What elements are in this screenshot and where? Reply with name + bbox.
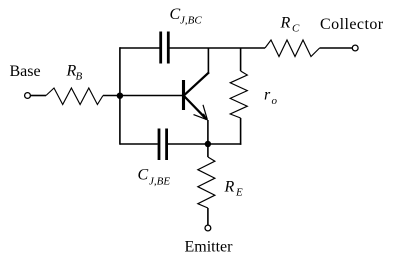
node emitter junction dot [205, 141, 211, 147]
svg-text:J,BE: J,BE [149, 176, 170, 188]
wire bottom rail left (base rail to CJBE) [120, 143, 158, 145]
transistor Q1 base bar [182, 80, 185, 110]
resistor RC [265, 40, 320, 57]
svg-text:J,BC: J,BC [180, 15, 202, 27]
wire base vertical rail [119, 47, 121, 145]
svg-text:C: C [170, 6, 181, 23]
label ro [264, 87, 278, 108]
resistor RE [198, 157, 215, 208]
svg-text:C: C [138, 167, 149, 184]
label RC [280, 15, 301, 35]
svg-text:B: B [76, 71, 83, 83]
wire CJBE to emitter node [168, 143, 208, 145]
label CJBE [138, 167, 171, 188]
svg-text:R: R [280, 15, 291, 32]
wire ro bottom drop [240, 118, 242, 145]
wire top rail right (CJBC to RC) [170, 47, 266, 49]
svg-text:Collector: Collector [320, 16, 384, 33]
wire ro top drop [240, 48, 242, 71]
wire base terminal to RB [30, 95, 46, 97]
label Emitter [185, 239, 234, 256]
capacitor CJBE [159, 129, 167, 161]
wire RC to collector terminal [320, 47, 353, 49]
transistor Q1 collector stroke [184, 72, 209, 95]
svg-text:R: R [224, 179, 235, 196]
label RB [66, 63, 83, 83]
label RE [224, 179, 244, 199]
label CJBC [170, 6, 203, 27]
resistor ro [230, 71, 247, 118]
capacitor CJBC [161, 32, 169, 64]
wire collector drop (top rail to transistor) [207, 48, 209, 73]
terminal Collector (open circle) [352, 45, 358, 51]
svg-text:C: C [292, 23, 300, 35]
wire RB to base node [103, 95, 183, 97]
transistor Q1 emitter stroke with arrow [184, 96, 208, 121]
label Collector [320, 16, 384, 33]
svg-text:Emitter: Emitter [185, 239, 234, 256]
label Base [10, 63, 41, 80]
svg-text:E: E [235, 187, 243, 199]
terminal Base (open circle) [25, 93, 31, 99]
terminal Emitter (open circle) [205, 225, 211, 231]
svg-text:Base: Base [10, 63, 41, 80]
wire emitter node to ro bottom [208, 143, 241, 145]
wire RE to emitter terminal [207, 208, 209, 225]
resistor RB [46, 88, 103, 105]
wire emitter node to RE [207, 144, 209, 157]
node base junction dot [117, 93, 123, 99]
wire top rail left (base node to CJBC) [120, 47, 160, 49]
svg-text:r: r [264, 87, 271, 104]
svg-text:o: o [272, 95, 278, 107]
wire emitter drop to emitter node [207, 120, 209, 145]
